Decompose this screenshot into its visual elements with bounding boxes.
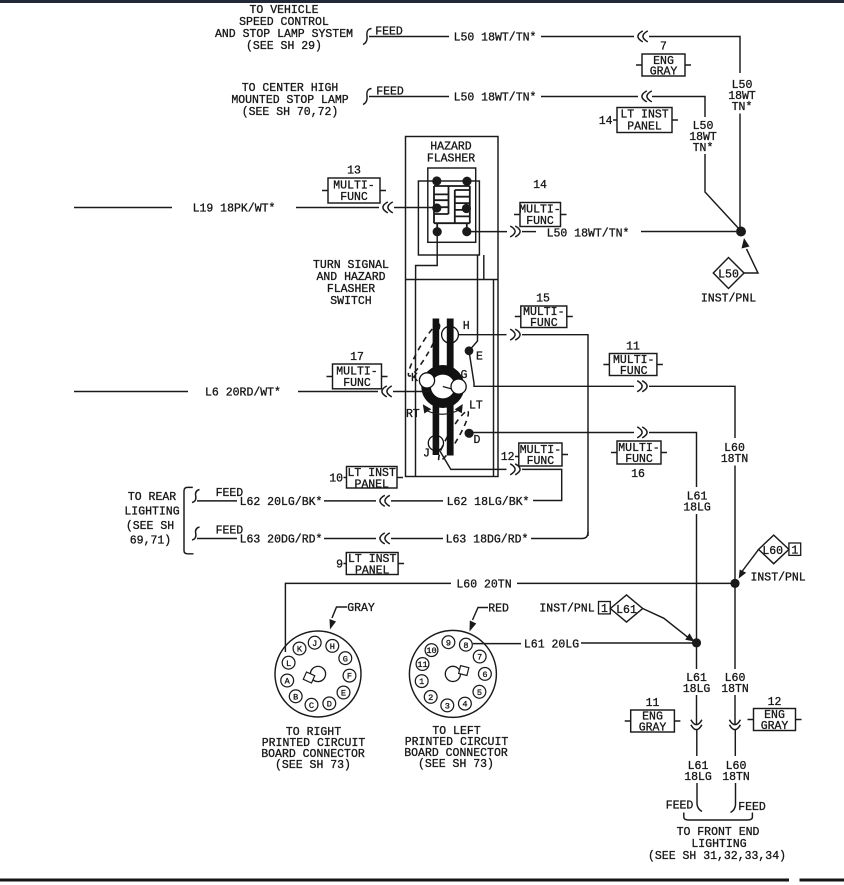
switch assembly outer box (406, 137, 499, 477)
RED connector pin 6 (479, 668, 492, 681)
bottom bracket (684, 813, 753, 821)
wire L50 feed 1 (369, 36, 634, 38)
RED connector pin 10 (425, 644, 438, 657)
svg-text:H: H (463, 320, 470, 333)
wire from contact J (434, 441, 507, 469)
svg-text:C: C (309, 701, 314, 711)
svg-text:LT: LT (469, 400, 483, 413)
flasher pin top-right (462, 177, 471, 186)
GRAY connector pins (281, 636, 356, 711)
RED connector pin 3 (441, 699, 454, 712)
wire L19 18PK/WT* (74, 207, 172, 209)
note: TO CENTER HIGH MOUNTED STOP LAMP text (231, 82, 348, 119)
svg-text:12: 12 (768, 696, 782, 709)
svg-text:GRAY: GRAY (650, 66, 678, 79)
wire L6 20RD/WT* (74, 391, 188, 393)
connector symbol wire2 (642, 91, 652, 102)
connector 17 MULTI-FUNC (327, 351, 388, 390)
svg-text:3: 3 (445, 702, 450, 712)
connector 15 MULTI-FUNC (515, 293, 573, 331)
svg-text:8: 8 (463, 641, 468, 651)
svg-text:69,71): 69,71) (130, 535, 171, 548)
RED connector pins (415, 636, 491, 712)
svg-text:7: 7 (660, 41, 667, 54)
svg-text:L62 20LG/BK*: L62 20LG/BK* (240, 496, 323, 509)
hazard flasher body box 2 (418, 181, 479, 255)
wire from contact E to right (469, 351, 634, 387)
svg-text:A: A (285, 677, 291, 687)
connector 10 LT INST PANEL (329, 467, 403, 492)
GRAY connector pin J (308, 636, 321, 649)
svg-text:INST/PNL: INST/PNL (701, 293, 756, 306)
wire L62 (197, 500, 237, 502)
wire L60 20TN (285, 583, 451, 652)
connector 13 MULTI-FUNC (322, 165, 386, 205)
svg-text:10: 10 (426, 646, 436, 656)
flasher pin mid-left (432, 203, 441, 212)
wire L60 vertical lower (734, 587, 736, 669)
connector: left printed circuit board (RED) (409, 630, 496, 717)
svg-text:L63 18DG/RD*: L63 18DG/RD* (446, 534, 529, 547)
wire L61 vertical lower (696, 646, 698, 669)
svg-text:1: 1 (791, 545, 798, 558)
svg-text:(SEE SH 70,72): (SEE SH 70,72) (242, 106, 339, 119)
svg-text:J: J (423, 448, 430, 461)
connector symbol wire1 (638, 31, 648, 42)
svg-text:17: 17 (350, 351, 364, 364)
svg-text:TN*: TN* (693, 142, 714, 155)
contact H (442, 326, 459, 343)
note TO RIGHT PRINTED CIRCUIT BOARD CONNECTOR (261, 726, 365, 772)
svg-text:L61 20LG: L61 20LG (524, 639, 579, 652)
RED connector pin 2 (424, 691, 437, 704)
connector 11 ENG GRAY (625, 697, 681, 735)
svg-text:G: G (461, 369, 468, 382)
svg-text:RED: RED (488, 603, 509, 616)
svg-text:2: 2 (428, 693, 433, 703)
contact point D (465, 429, 474, 438)
svg-text:9: 9 (336, 559, 343, 572)
RED connector pin 7 (473, 650, 486, 663)
junction node L61 (692, 638, 701, 647)
svg-text:TO REAR: TO REAR (128, 491, 176, 504)
svg-text:18TN: 18TN (722, 771, 750, 784)
svg-text:1: 1 (601, 603, 608, 616)
svg-text:11: 11 (417, 660, 427, 670)
svg-text:G: G (343, 654, 348, 664)
svg-text:INST/PNL: INST/PNL (539, 603, 594, 616)
svg-text:FEED: FEED (666, 800, 694, 813)
wire from contact D to right (469, 432, 634, 435)
flasher pin top-left (432, 176, 441, 185)
note: TO VEHICLE SPEED CONTROL destination text (215, 4, 353, 53)
svg-text:FLASHER: FLASHER (427, 153, 475, 166)
wire label L50 18WT TN* (right vertical) (728, 79, 756, 114)
svg-text:E: E (476, 351, 483, 364)
GRAY connector pin K (293, 642, 306, 655)
svg-text:K: K (297, 645, 303, 655)
left contact bar (433, 319, 440, 456)
flasher pin bottom-left (433, 227, 442, 236)
svg-text:(SEE SH 73): (SEE SH 73) (418, 758, 494, 771)
svg-text:L6 20RD/WT*: L6 20RD/WT* (205, 387, 281, 400)
svg-text:D: D (327, 700, 332, 710)
GRAY connector pin B (289, 690, 302, 703)
wire L63 (197, 538, 237, 540)
flasher element comb (434, 181, 470, 231)
svg-text:13: 13 (347, 165, 361, 178)
svg-text:PANEL: PANEL (355, 565, 390, 578)
svg-text:H: H (330, 642, 335, 652)
wire from flasher box to switch (right) (483, 255, 485, 280)
symbol L60 diamond with 1 (739, 535, 801, 578)
svg-text:16: 16 (631, 468, 645, 481)
connector 16 MULTI-FUNC (611, 441, 667, 481)
svg-text:D: D (474, 434, 481, 447)
note TO LEFT PRINTED CIRCUIT BOARD CONNECTOR (404, 725, 508, 771)
svg-text:14: 14 (599, 115, 613, 128)
note TO FRONT END LIGHTING (648, 826, 786, 863)
connector 14 LT INST PANEL (599, 108, 678, 134)
inner switch box sides (416, 280, 494, 477)
svg-text:4: 4 (462, 700, 467, 710)
connector 7 ENG GRAY (636, 41, 691, 79)
wire from contact H (458, 334, 506, 336)
hatched ellipse upper-left (405, 322, 444, 379)
svg-text:(SEE SH 73): (SEE SH 73) (275, 759, 351, 772)
svg-text:FUNC: FUNC (625, 453, 653, 466)
label TURN SIGNAL AND HAZARD FLASHER SWITCH (313, 259, 389, 308)
svg-text:12: 12 (501, 451, 515, 464)
symbol L50 diamond (INST/PNL) (701, 238, 758, 306)
svg-text:FUNC: FUNC (340, 191, 368, 204)
connector 9 LT INST PANEL (336, 553, 404, 578)
svg-text:18LG: 18LG (683, 683, 711, 696)
node RED label with arrow (470, 603, 510, 632)
svg-text:(SEE SH 29): (SEE SH 29) (246, 40, 322, 53)
hazard flasher body box 1 (428, 168, 476, 242)
GRAY connector pin A (281, 674, 294, 687)
GRAY connector pin F (343, 669, 356, 682)
GRAY connector pin L (282, 656, 295, 669)
GRAY connector pin H (326, 640, 339, 653)
GRAY connector pin C (305, 698, 318, 711)
svg-text:L62 18LG/BK*: L62 18LG/BK* (447, 496, 530, 509)
hatched ellipse lower-right (435, 409, 472, 463)
contact point E (465, 346, 474, 355)
wire from flasher box down to contact E (469, 255, 478, 351)
svg-text:FUNC: FUNC (620, 365, 648, 378)
svg-text:18LG: 18LG (683, 502, 711, 515)
bracket (184, 487, 194, 553)
svg-text:L60 20TN: L60 20TN (456, 579, 511, 592)
contact G (451, 379, 466, 394)
junction node L60/INST PNL (730, 579, 739, 588)
RED connector pin 4 (459, 697, 472, 710)
RED connector pin 9 (442, 636, 455, 649)
connector 11 MULTI-FUNC (603, 341, 663, 379)
junction node L50 (736, 227, 746, 237)
svg-text:L50: L50 (718, 269, 739, 282)
GRAY connector pin G (339, 652, 352, 665)
wire L50 feed 2 (369, 96, 638, 98)
top border bar (0, 0, 844, 3)
svg-text:INST/PNL: INST/PNL (751, 572, 806, 585)
rotor center (430, 374, 455, 399)
svg-text:FUNC: FUNC (527, 455, 555, 468)
svg-text:11: 11 (646, 697, 660, 710)
svg-text:GRAY: GRAY (761, 720, 789, 733)
RED connector pin 1 (415, 675, 428, 688)
svg-text:5: 5 (477, 688, 482, 698)
svg-text:K: K (411, 372, 418, 385)
svg-text:18TN: 18TN (721, 683, 749, 696)
svg-text:(SEE SH: (SEE SH (126, 520, 174, 533)
svg-text:10: 10 (329, 473, 343, 486)
svg-text:6: 6 (482, 670, 487, 680)
connector 12 MULTI-FUNC (501, 443, 568, 468)
symbol L61 diamond with 1 INST/PNL (539, 595, 694, 642)
flasher pin bottom-right (462, 227, 471, 236)
svg-text:FUNC: FUNC (343, 377, 371, 390)
rotor ring (426, 370, 460, 404)
svg-text:FUNC: FUNC (526, 215, 554, 228)
svg-text:L50 18WT/TN*: L50 18WT/TN* (454, 32, 537, 45)
note TO REAR LIGHTING (124, 491, 179, 548)
svg-text:TN*: TN* (732, 101, 753, 114)
connector: right printed circuit board (GRAY) (275, 631, 361, 717)
wire from flasher bottom-left pin down into switch (416, 232, 438, 280)
svg-text:18LG: 18LG (684, 771, 712, 784)
svg-text:L: L (286, 659, 291, 669)
RED connector pin 5 (473, 685, 486, 698)
svg-text:11: 11 (626, 341, 640, 354)
svg-text:L50 18WT/TN*: L50 18WT/TN* (547, 228, 630, 241)
GRAY connector pin D (323, 697, 336, 710)
contact K (419, 373, 434, 388)
RED connector pin 11 (416, 658, 429, 671)
svg-text:LIGHTING: LIGHTING (124, 506, 179, 519)
node GRAY label with arrow (330, 602, 375, 630)
bottom border bar (0, 879, 789, 882)
svg-text:L19 18PK/WT*: L19 18PK/WT* (193, 203, 276, 216)
svg-text:L61: L61 (616, 604, 637, 617)
svg-text:RT: RT (406, 408, 420, 421)
right contact bar (447, 319, 454, 456)
wire L61 20LG from pin 8 (473, 643, 521, 645)
divider line (406, 279, 499, 281)
svg-text:PANEL: PANEL (354, 479, 389, 492)
svg-text:L60: L60 (762, 545, 783, 558)
svg-text:9: 9 (446, 638, 451, 648)
svg-text:7: 7 (477, 653, 482, 663)
svg-text:F: F (347, 672, 352, 682)
wire: vertical then diagonal to junction (705, 154, 741, 231)
wire L50 out of flasher (467, 231, 507, 233)
RED connector pin 8 (460, 638, 473, 651)
svg-text:18TN: 18TN (721, 453, 749, 466)
svg-text:FEED: FEED (738, 801, 766, 814)
svg-text:J: J (312, 639, 317, 649)
svg-text:1: 1 (419, 677, 424, 687)
contact J (428, 436, 443, 451)
svg-text:FUNC: FUNC (530, 317, 558, 330)
wire L50 vertical right (739, 114, 741, 229)
GRAY connector pin E (337, 686, 350, 699)
svg-text:(SEE SH 31,32,33,34): (SEE SH 31,32,33,34) (648, 850, 786, 863)
wire label L50 18WT TN* (2nd vertical) (689, 120, 717, 155)
svg-text:15: 15 (536, 293, 550, 306)
rotation arc (427, 410, 461, 415)
switch mechanism: contact bars and rotor (405, 319, 483, 464)
flasher pin mid-right (462, 204, 471, 213)
connector 12 ENG GRAY (748, 696, 802, 733)
svg-text:14: 14 (533, 179, 547, 192)
connector 14 MULTI-FUNC (514, 179, 567, 228)
svg-text:PANEL: PANEL (627, 121, 662, 134)
svg-text:GRAY: GRAY (639, 722, 667, 735)
svg-text:GRAY: GRAY (347, 602, 375, 615)
svg-text:SWITCH: SWITCH (330, 295, 371, 308)
svg-text:L50 18WT/TN*: L50 18WT/TN* (454, 92, 537, 105)
svg-text:B: B (293, 692, 298, 702)
svg-text:E: E (341, 689, 346, 699)
svg-text:L63 20DG/RD*: L63 20DG/RD* (240, 534, 323, 547)
